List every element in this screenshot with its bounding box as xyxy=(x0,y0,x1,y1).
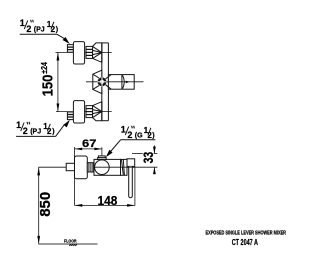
dimension 148 text xyxy=(98,194,118,208)
side union threads xyxy=(87,163,94,172)
svg-text:): ) xyxy=(152,132,154,139)
svg-text:(PJ: (PJ xyxy=(30,128,41,135)
dimension 150 line xyxy=(57,52,60,111)
top inlet flange xyxy=(73,42,84,64)
dimension 150 text xyxy=(40,75,57,97)
dimension 67 xyxy=(75,148,102,151)
side centerline redraw over body xyxy=(94,166,135,168)
floor hatch xyxy=(69,244,77,246)
svg-text:150: 150 xyxy=(40,75,57,97)
wall extension line xyxy=(74,147,76,205)
centerline top inlet xyxy=(56,51,112,53)
svg-text:(PJ: (PJ xyxy=(34,26,45,33)
svg-text:2: 2 xyxy=(26,24,31,34)
flow arrow in knob xyxy=(126,81,130,84)
svg-text:148: 148 xyxy=(98,194,118,208)
svg-text:2: 2 xyxy=(23,126,28,136)
svg-text:1: 1 xyxy=(16,120,21,130)
top inlet nipple xyxy=(67,45,73,53)
dimension 67 text xyxy=(82,138,96,150)
title line 1 xyxy=(206,231,287,237)
svg-text:33: 33 xyxy=(140,152,156,164)
side vertical centerline of valve xyxy=(101,147,103,175)
valve knob front view xyxy=(106,75,135,90)
label 1/2(G1/2) xyxy=(121,124,155,140)
leader top-left xyxy=(20,34,70,44)
label bottom-left 1/2(PJ1/2) xyxy=(16,120,54,136)
svg-text:67: 67 xyxy=(82,138,96,150)
side cap with slants xyxy=(121,159,128,175)
top inlet cone xyxy=(93,43,102,62)
svg-text:1: 1 xyxy=(121,124,126,134)
side view main centerline xyxy=(38,166,157,168)
bottom inlet union nut xyxy=(86,106,93,118)
centerline valve front view xyxy=(86,81,144,83)
shower outlet on top xyxy=(98,156,107,160)
lever right extension xyxy=(134,167,136,206)
side valve circle xyxy=(95,160,110,175)
svg-text:EXPOSED SINGLE LEVER SHOWER MI: EXPOSED SINGLE LEVER SHOWER MIXER xyxy=(206,231,287,237)
dimension 33 xyxy=(132,145,157,174)
bottom inlet cone xyxy=(93,102,102,121)
dimension 33 text xyxy=(140,152,156,164)
side valve body xyxy=(94,159,121,175)
svg-text:): ) xyxy=(52,128,54,135)
svg-text:850: 850 xyxy=(37,192,54,217)
label top-left 1/2(PJ1/2) xyxy=(20,18,58,34)
dimension 148 xyxy=(75,204,135,207)
bottom inlet nipple xyxy=(67,112,73,120)
svg-text:(G: (G xyxy=(135,132,143,139)
lever handle xyxy=(129,166,133,197)
valve left wing xyxy=(93,70,102,93)
svg-text:±24: ±24 xyxy=(39,62,49,74)
side nipple xyxy=(66,163,74,170)
lever hub xyxy=(127,159,135,167)
floor label xyxy=(64,238,77,243)
leader G1/2 xyxy=(106,140,156,158)
leader bottom-left xyxy=(16,120,70,137)
side flange xyxy=(75,156,88,179)
title line 2 xyxy=(232,238,258,247)
dimension 850 text xyxy=(37,192,54,217)
dimension tolerance +-24 text xyxy=(39,62,49,74)
top inlet union nut xyxy=(86,46,93,58)
floor line xyxy=(38,243,97,245)
dimension 850 xyxy=(37,167,40,244)
centerline bottom inlet xyxy=(56,111,112,113)
svg-text:2: 2 xyxy=(127,130,132,140)
svg-text:FLOOR: FLOOR xyxy=(64,238,77,243)
bottom inlet flange xyxy=(73,101,84,123)
svg-text:1: 1 xyxy=(20,18,25,28)
body vertical column front view xyxy=(102,43,109,121)
valve circle front view xyxy=(99,79,106,86)
svg-text:CT 2047 A: CT 2047 A xyxy=(232,238,258,247)
valve crosshair gap xyxy=(97,77,106,86)
svg-text:): ) xyxy=(56,26,58,33)
